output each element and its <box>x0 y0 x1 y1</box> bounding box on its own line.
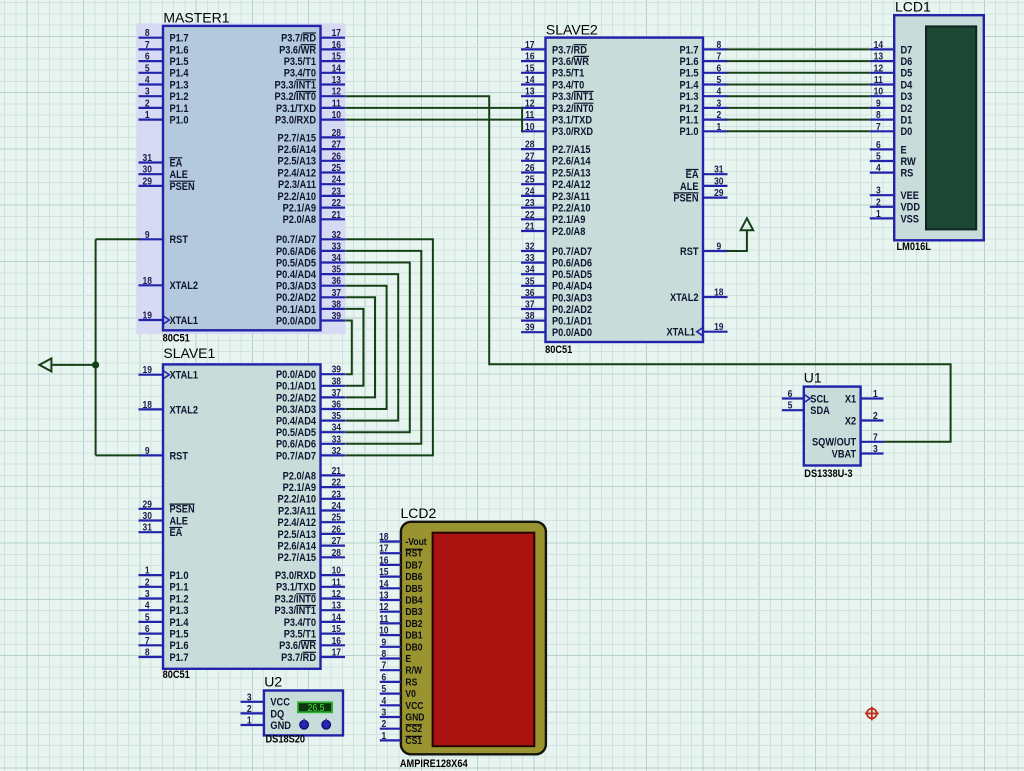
pin P0.2/AD2 (37) of MASTER1 <box>321 296 346 298</box>
svg-text:4: 4 <box>716 86 721 97</box>
svg-text:24: 24 <box>332 174 342 185</box>
pin DB3 (12) of LCD2 <box>380 611 401 613</box>
wire to MASTER1 RST pin <box>96 238 140 240</box>
svg-text:1: 1 <box>247 715 252 726</box>
svg-text:32: 32 <box>332 229 341 240</box>
svg-text:P0.2/AD2: P0.2/AD2 <box>552 304 592 316</box>
svg-text:2: 2 <box>145 577 150 588</box>
svg-text:12: 12 <box>332 86 341 97</box>
U2 temperature display 26.5 <box>298 702 332 712</box>
svg-text:XTAL1: XTAL1 <box>170 370 199 382</box>
pin DB7 (16) of LCD2 <box>380 564 401 566</box>
svg-text:D4: D4 <box>901 80 913 92</box>
svg-text:P1.0: P1.0 <box>680 127 699 139</box>
pin P3.7/RD (17) of SLAVE2 <box>521 48 546 50</box>
svg-text:18: 18 <box>714 287 723 298</box>
svg-text:D7: D7 <box>901 45 913 57</box>
pin P1.0 (1) of MASTER1 <box>139 118 164 120</box>
pin P0.1/AD1 (38) of MASTER1 <box>321 308 346 310</box>
svg-text:V0: V0 <box>405 688 415 699</box>
pin P1.5 (6) of SLAVE1 <box>139 632 164 634</box>
pin VCC (4) of LCD2 <box>380 704 401 706</box>
svg-text:16: 16 <box>379 555 388 566</box>
pin -Vout (18) of LCD2 <box>380 540 401 542</box>
pin P1.6 (7) of SLAVE2 <box>703 60 728 62</box>
wire vertical MASTER1 RST to SLAVE1 RST <box>95 239 97 455</box>
svg-text:RS: RS <box>405 677 417 688</box>
svg-text:P2.3/A11: P2.3/A11 <box>278 179 316 191</box>
svg-text:XTAL1: XTAL1 <box>170 315 199 327</box>
svg-text:31: 31 <box>714 164 723 175</box>
svg-text:RW: RW <box>901 156 917 168</box>
pin P3.1/TXD (11) of SLAVE2 <box>521 118 546 120</box>
svg-text:80C51: 80C51 <box>163 669 191 681</box>
pin XTAL2 (18) of SLAVE1 <box>139 408 164 410</box>
pin P3.0/RXD (10) of SLAVE2 <box>521 130 546 132</box>
pin CS2 (2) of LCD2 <box>380 728 401 730</box>
pin P0.7/AD7 (32) of SLAVE1 <box>321 454 346 456</box>
svg-text:19: 19 <box>142 365 151 376</box>
svg-text:P2.0/A8: P2.0/A8 <box>552 226 586 238</box>
svg-text:P3.7/RD: P3.7/RD <box>281 33 316 45</box>
svg-text:8: 8 <box>145 28 150 39</box>
terminal (default, pointing up) on SLAVE2 RST <box>741 218 754 230</box>
svg-text:P2.4/A12: P2.4/A12 <box>278 517 317 529</box>
pin D1 (8) of LCD1 <box>870 118 894 120</box>
svg-text:P3.5/T1: P3.5/T1 <box>552 68 585 80</box>
svg-text:P2.2/A10: P2.2/A10 <box>278 191 317 203</box>
pin GND (1) of U2 <box>241 724 264 726</box>
svg-text:21: 21 <box>332 465 341 476</box>
svg-text:P0.5/AD5: P0.5/AD5 <box>552 269 592 281</box>
svg-text:4: 4 <box>876 162 881 173</box>
svg-text:34: 34 <box>332 252 342 263</box>
svg-text:E: E <box>405 653 411 664</box>
pin P0.2/AD2 (37) of SLAVE1 <box>321 396 346 398</box>
svg-text:4: 4 <box>145 600 150 611</box>
pin P0.7/AD7 (32) of SLAVE2 <box>521 250 546 252</box>
svg-text:P2.7/A15: P2.7/A15 <box>278 133 317 145</box>
svg-text:MASTER1: MASTER1 <box>163 10 229 26</box>
svg-text:P2.1/A9: P2.1/A9 <box>283 482 317 494</box>
pin P3.1/TXD (11) of SLAVE1 <box>321 586 346 588</box>
wire MASTER1 P0.5/AD5 to SLAVE1 P0.5/AD5 <box>345 263 410 433</box>
svg-text:DQ: DQ <box>270 709 284 721</box>
svg-text:P0.0/AD0: P0.0/AD0 <box>552 327 592 339</box>
svg-text:12: 12 <box>525 98 534 109</box>
wire SLAVE2 P1.0 to LCD1 D0 <box>727 130 870 132</box>
svg-text:2: 2 <box>716 109 721 120</box>
wire MASTER1 P0.7/AD7 to SLAVE1 P0.7/AD7 <box>345 239 433 455</box>
svg-text:11: 11 <box>525 109 534 120</box>
svg-text:EA: EA <box>686 169 699 181</box>
pin XTAL1 (19) of MASTER1 <box>139 319 164 321</box>
LCD2 red screen <box>433 533 535 747</box>
svg-text:DB6: DB6 <box>405 571 422 582</box>
svg-text:D6: D6 <box>901 56 913 68</box>
svg-text:5: 5 <box>145 63 150 74</box>
svg-text:11: 11 <box>874 74 883 85</box>
svg-text:33: 33 <box>332 434 341 445</box>
svg-text:9: 9 <box>716 241 721 252</box>
pin P2.6/A14 (27) of SLAVE1 <box>321 544 346 546</box>
IC SLAVE2 (80C51) body <box>546 38 704 342</box>
svg-text:P1.3: P1.3 <box>170 80 189 92</box>
svg-text:RST: RST <box>680 246 699 258</box>
svg-text:80C51: 80C51 <box>163 333 191 345</box>
U2 up button <box>300 720 309 729</box>
IC U2 (DS18S20) body <box>264 691 343 736</box>
pin P0.3/AD3 (36) of SLAVE2 <box>521 296 546 298</box>
svg-text:P2.0/A8: P2.0/A8 <box>283 215 317 227</box>
svg-text:6: 6 <box>145 51 150 62</box>
svg-text:SLAVE1: SLAVE1 <box>163 345 215 361</box>
pin P2.7/A15 (28) of SLAVE2 <box>521 148 546 150</box>
pin P1.3 (4) of SLAVE2 <box>703 95 728 97</box>
pin P3.5/T1 (15) of MASTER1 <box>321 60 346 62</box>
pin P2.5/A13 (26) of MASTER1 <box>321 160 346 162</box>
svg-text:30: 30 <box>142 510 151 521</box>
svg-text:ALE: ALE <box>680 181 699 193</box>
pin P3.6/WR (16) of MASTER1 <box>321 48 346 50</box>
svg-text:31: 31 <box>142 152 151 163</box>
svg-text:ALE: ALE <box>170 169 189 181</box>
svg-text:XTAL1: XTAL1 <box>666 327 695 339</box>
svg-text:11: 11 <box>332 98 341 109</box>
pin DQ (2) of U2 <box>241 712 264 714</box>
svg-text:7: 7 <box>716 51 721 62</box>
svg-text:5: 5 <box>145 612 150 623</box>
pin P3.0/RXD (10) of MASTER1 <box>321 118 346 120</box>
svg-text:PSEN: PSEN <box>170 181 195 193</box>
wire MASTER1 P3.0/RXD to SLAVE2 P3.1/TXD <box>345 119 521 121</box>
svg-text:25: 25 <box>525 174 534 185</box>
svg-text:30: 30 <box>142 164 151 175</box>
svg-text:P0.4/AD4: P0.4/AD4 <box>552 281 592 293</box>
svg-text:15: 15 <box>332 623 341 634</box>
pin P0.1/AD1 (38) of SLAVE2 <box>521 320 546 322</box>
pin RST (9) of SLAVE1 <box>139 454 164 456</box>
pin P0.1/AD1 (38) of SLAVE1 <box>321 385 346 387</box>
wire MASTER1 P0.2/AD2 to SLAVE1 P0.2/AD2 <box>345 297 375 397</box>
svg-text:5: 5 <box>716 74 721 85</box>
svg-text:ALE: ALE <box>170 516 189 528</box>
pin P2.6/A14 (27) of SLAVE2 <box>521 160 546 162</box>
wire SLAVE2 P1.3 to LCD1 D3 <box>727 95 870 97</box>
svg-text:U1: U1 <box>804 369 822 385</box>
svg-text:P3.2/INT0: P3.2/INT0 <box>274 594 316 606</box>
wire MASTER1 P0.0/AD0 to SLAVE1 P0.0/AD0 <box>345 321 352 375</box>
svg-text:VSS: VSS <box>901 214 920 226</box>
origin marker (red crosshair) <box>865 707 879 721</box>
pin P3.2/INT0 (12) of SLAVE2 <box>521 107 546 109</box>
pin D5 (12) of LCD1 <box>870 72 894 74</box>
pin V0 (5) of LCD2 <box>380 692 401 694</box>
svg-text:13: 13 <box>379 590 388 601</box>
svg-text:P1.0: P1.0 <box>170 115 189 127</box>
svg-text:P2.1/A9: P2.1/A9 <box>552 215 586 227</box>
pin RST (9) of MASTER1 <box>139 238 164 240</box>
svg-text:P3.2/INT0: P3.2/INT0 <box>274 91 316 103</box>
svg-text:DS1338U-3: DS1338U-3 <box>804 468 853 480</box>
svg-text:P3.6/WR: P3.6/WR <box>552 56 590 68</box>
svg-text:VEE: VEE <box>901 190 920 202</box>
svg-text:10: 10 <box>379 625 388 636</box>
svg-text:11: 11 <box>332 577 341 588</box>
pin D6 (13) of LCD1 <box>870 60 894 62</box>
svg-text:DB3: DB3 <box>405 607 422 618</box>
svg-text:12: 12 <box>379 602 388 613</box>
pin P0.4/AD4 (35) of SLAVE1 <box>321 420 346 422</box>
svg-text:P1.6: P1.6 <box>170 641 189 653</box>
svg-text:28: 28 <box>525 139 534 150</box>
pin P0.6/AD6 (33) of MASTER1 <box>321 250 346 252</box>
svg-text:P0.7/AD7: P0.7/AD7 <box>276 235 316 247</box>
svg-text:14: 14 <box>874 39 884 50</box>
svg-text:16: 16 <box>332 39 341 50</box>
svg-text:22: 22 <box>525 209 534 220</box>
pin EA (31) of SLAVE2 <box>703 173 728 175</box>
svg-text:DB7: DB7 <box>405 560 422 571</box>
svg-text:P3.1/TXD: P3.1/TXD <box>276 582 316 594</box>
svg-text:U2: U2 <box>264 674 282 690</box>
pin P3.3/INT1 (13) of SLAVE1 <box>321 609 346 611</box>
pin DB5 (14) of LCD2 <box>380 587 401 589</box>
svg-text:D5: D5 <box>901 68 913 80</box>
pin P0.0/AD0 (39) of SLAVE1 <box>321 373 346 375</box>
svg-text:2: 2 <box>876 197 881 208</box>
pin P3.4/T0 (14) of MASTER1 <box>321 72 346 74</box>
pin P1.3 (4) of SLAVE1 <box>139 609 164 611</box>
pin P3.5/T1 (15) of SLAVE2 <box>521 72 546 74</box>
svg-text:8: 8 <box>716 39 721 50</box>
svg-text:P0.3/AD3: P0.3/AD3 <box>276 404 316 416</box>
svg-text:RST: RST <box>170 235 189 247</box>
pin P2.7/A15 (28) of SLAVE1 <box>321 556 346 558</box>
pin P3.6/WR (16) of SLAVE1 <box>321 644 346 646</box>
pin P1.4 (5) of SLAVE2 <box>703 83 728 85</box>
svg-text:P3.6/WR: P3.6/WR <box>279 641 317 653</box>
svg-text:D1: D1 <box>901 115 913 127</box>
svg-text:8: 8 <box>381 648 386 659</box>
svg-text:5: 5 <box>876 151 881 162</box>
svg-text:25: 25 <box>332 512 341 523</box>
pin P1.7 (8) of SLAVE2 <box>703 48 728 50</box>
svg-text:P0.2/AD2: P0.2/AD2 <box>276 393 316 405</box>
svg-text:19: 19 <box>714 322 723 333</box>
pin P3.3/INT1 (13) of MASTER1 <box>321 83 346 85</box>
wire SLAVE2 RST to up terminal <box>727 230 747 251</box>
svg-text:P3.0/RXD: P3.0/RXD <box>275 115 316 127</box>
svg-text:28: 28 <box>332 127 341 138</box>
svg-text:P2.2/A10: P2.2/A10 <box>552 203 591 215</box>
svg-text:21: 21 <box>332 209 341 220</box>
pin P0.5/AD5 (34) of SLAVE1 <box>321 431 346 433</box>
svg-text:LCD2: LCD2 <box>401 505 437 521</box>
svg-text:2: 2 <box>873 410 878 421</box>
LCD1 dark green screen <box>926 26 976 229</box>
svg-text:P1.5: P1.5 <box>170 629 189 641</box>
pin P1.0 (1) of SLAVE1 <box>139 574 164 576</box>
svg-text:10: 10 <box>525 121 534 132</box>
svg-text:P0.4/AD4: P0.4/AD4 <box>276 269 316 281</box>
svg-text:7: 7 <box>145 39 150 50</box>
svg-text:29: 29 <box>142 176 151 187</box>
svg-text:27: 27 <box>525 151 534 162</box>
svg-text:16: 16 <box>525 51 534 62</box>
svg-text:PSEN: PSEN <box>170 504 195 516</box>
svg-text:32: 32 <box>525 241 534 252</box>
pin P1.6 (7) of SLAVE1 <box>139 644 164 646</box>
svg-text:19: 19 <box>142 310 151 321</box>
svg-text:R/W: R/W <box>405 665 422 676</box>
svg-text:P3.3/INT1: P3.3/INT1 <box>274 605 316 617</box>
svg-text:15: 15 <box>525 63 534 74</box>
pin D7 (14) of LCD1 <box>870 48 894 50</box>
svg-text:36: 36 <box>525 287 534 298</box>
pin P1.6 (7) of MASTER1 <box>139 48 164 50</box>
svg-text:17: 17 <box>379 543 388 554</box>
selection highlight box around MASTER1 <box>136 23 345 334</box>
svg-text:35: 35 <box>332 264 341 275</box>
svg-text:26: 26 <box>525 162 534 173</box>
svg-text:P0.1/AD1: P0.1/AD1 <box>552 316 592 328</box>
svg-text:3: 3 <box>716 98 721 109</box>
svg-text:35: 35 <box>525 276 534 287</box>
pin CS1 (1) of LCD2 <box>380 739 401 741</box>
svg-text:29: 29 <box>142 499 151 510</box>
svg-text:P0.4/AD4: P0.4/AD4 <box>276 416 316 428</box>
svg-text:P1.2: P1.2 <box>170 91 189 103</box>
pin P2.4/A12 (25) of SLAVE1 <box>321 521 346 523</box>
pin P1.4 (5) of MASTER1 <box>139 72 164 74</box>
pin P1.1 (2) of MASTER1 <box>139 107 164 109</box>
svg-text:LM016L: LM016L <box>897 241 931 253</box>
svg-text:13: 13 <box>525 86 534 97</box>
svg-text:31: 31 <box>142 522 151 533</box>
svg-text:P1.7: P1.7 <box>680 45 699 57</box>
svg-text:11: 11 <box>379 613 388 624</box>
svg-text:7: 7 <box>873 432 878 443</box>
pin P3.2/INT0 (12) of MASTER1 <box>321 95 346 97</box>
wire SLAVE2 P1.2 to LCD1 D2 <box>727 107 870 109</box>
wire SLAVE2 P1.6 to LCD1 D6 <box>727 60 870 62</box>
svg-text:23: 23 <box>525 197 534 208</box>
pin VSS (1) of LCD1 <box>870 217 894 219</box>
svg-text:P0.6/AD6: P0.6/AD6 <box>276 246 316 258</box>
wire to SLAVE1 RST pin <box>96 454 140 456</box>
pin PSEN (29) of SLAVE2 <box>703 197 728 199</box>
svg-text:VCC: VCC <box>405 700 423 711</box>
pin EA (31) of SLAVE1 <box>139 531 164 533</box>
pin VDD (2) of LCD1 <box>870 206 894 208</box>
pin XTAL1 (19) of SLAVE1 <box>139 374 164 376</box>
svg-text:P1.3: P1.3 <box>170 605 189 617</box>
pin P0.0/AD0 (39) of MASTER1 <box>321 319 346 321</box>
svg-text:P2.0/A8: P2.0/A8 <box>283 471 317 483</box>
pin P2.7/A15 (28) of MASTER1 <box>321 136 346 138</box>
svg-text:D0: D0 <box>901 127 913 139</box>
wire SLAVE2 P1.5 to LCD1 D5 <box>727 72 870 74</box>
svg-text:P1.5: P1.5 <box>680 68 699 80</box>
svg-text:18: 18 <box>142 275 151 286</box>
svg-text:P0.7/AD7: P0.7/AD7 <box>552 246 592 258</box>
svg-text:1: 1 <box>716 121 721 132</box>
svg-text:80C51: 80C51 <box>545 344 573 356</box>
svg-text:22: 22 <box>332 197 341 208</box>
svg-text:P2.1/A9: P2.1/A9 <box>283 203 317 215</box>
svg-text:25: 25 <box>332 162 341 173</box>
pin ALE (30) of MASTER1 <box>139 173 164 175</box>
svg-text:38: 38 <box>332 376 341 387</box>
pin XTAL2 (18) of MASTER1 <box>139 284 164 286</box>
wire SLAVE2 P1.1 to LCD1 D1 <box>727 119 870 121</box>
svg-text:P3.7/RD: P3.7/RD <box>552 45 587 57</box>
pin VCC (3) of U2 <box>241 701 264 703</box>
svg-text:P0.5/AD5: P0.5/AD5 <box>276 258 316 270</box>
svg-text:15: 15 <box>379 566 388 577</box>
pin VBAT (3) of U1 <box>861 452 884 454</box>
svg-text:P3.1/TXD: P3.1/TXD <box>552 115 592 127</box>
pin P3.4/T0 (14) of SLAVE2 <box>521 83 546 85</box>
svg-text:14: 14 <box>332 612 342 623</box>
svg-text:6: 6 <box>788 388 793 399</box>
pin P3.4/T0 (14) of SLAVE1 <box>321 621 346 623</box>
svg-text:P3.4/T0: P3.4/T0 <box>552 80 585 92</box>
svg-text:4: 4 <box>145 74 150 85</box>
svg-text:6: 6 <box>145 623 150 634</box>
svg-text:3: 3 <box>873 443 878 454</box>
svg-text:27: 27 <box>332 139 341 150</box>
svg-text:P2.4/A12: P2.4/A12 <box>552 179 591 191</box>
pin P0.6/AD6 (33) of SLAVE2 <box>521 262 546 264</box>
svg-text:P1.2: P1.2 <box>170 594 189 606</box>
pin P3.7/RD (17) of MASTER1 <box>321 37 346 39</box>
svg-text:P0.1/AD1: P0.1/AD1 <box>276 381 316 393</box>
svg-text:37: 37 <box>525 299 534 310</box>
svg-text:1: 1 <box>145 109 150 120</box>
wire MASTER1 P0.1/AD1 to SLAVE1 P0.1/AD1 <box>345 309 363 386</box>
svg-text:13: 13 <box>332 600 341 611</box>
svg-text:P2.2/A10: P2.2/A10 <box>278 494 317 506</box>
svg-text:GND: GND <box>270 720 291 732</box>
svg-text:24: 24 <box>525 186 535 197</box>
svg-text:39: 39 <box>332 364 341 375</box>
svg-text:3: 3 <box>247 692 252 703</box>
svg-text:P3.0/RXD: P3.0/RXD <box>552 127 593 139</box>
svg-text:P2.7/A15: P2.7/A15 <box>552 144 591 156</box>
pin RS (6) of LCD2 <box>380 681 401 683</box>
svg-text:P1.3: P1.3 <box>680 91 699 103</box>
wire MASTER1 P0.4/AD4 to SLAVE1 P0.4/AD4 <box>345 274 398 421</box>
svg-text:P1.0: P1.0 <box>170 570 189 582</box>
wire MASTER1 P0.3/AD3 to SLAVE1 P0.3/AD3 <box>345 286 386 409</box>
svg-text:E: E <box>901 145 907 157</box>
pin P2.2/A10 (23) of SLAVE2 <box>521 207 546 209</box>
pin ALE (30) of SLAVE1 <box>139 519 164 521</box>
pin P2.2/A10 (23) of SLAVE1 <box>321 498 346 500</box>
svg-text:21: 21 <box>525 221 534 232</box>
svg-text:10: 10 <box>332 565 341 576</box>
svg-text:23: 23 <box>332 186 341 197</box>
pin PSEN (29) of SLAVE1 <box>139 508 164 510</box>
svg-text:SCL: SCL <box>810 394 828 406</box>
pin SQW/OUT (7) of U1 <box>861 441 884 443</box>
svg-text:9: 9 <box>145 229 150 240</box>
pin DB4 (13) of LCD2 <box>380 599 401 601</box>
pin P2.4/A12 (25) of SLAVE2 <box>521 183 546 185</box>
svg-text:P1.7: P1.7 <box>170 33 189 45</box>
